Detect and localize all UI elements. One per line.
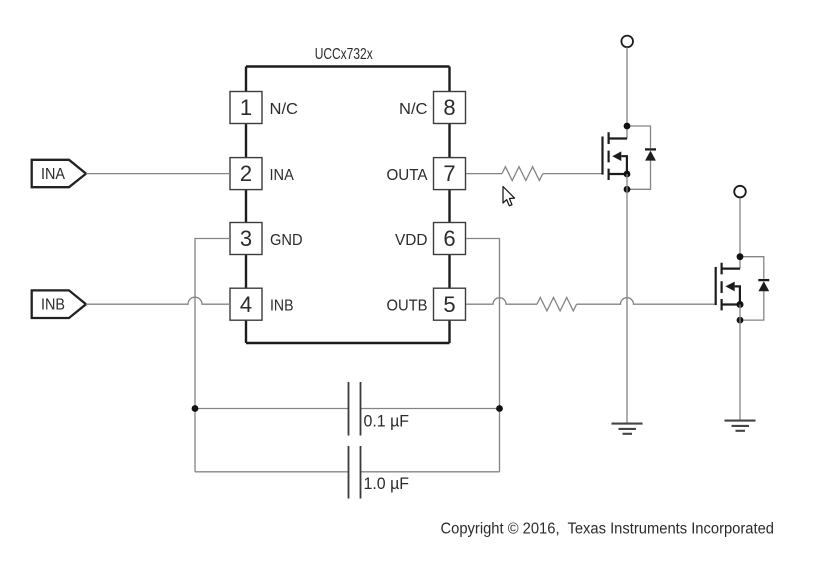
transistor Q1 (N-MOSFET) — [603, 132, 628, 180]
svg-text:1.0 µF: 1.0 µF — [364, 474, 410, 493]
wire cap C2 row left — [195, 471, 349, 473]
svg-text:8: 8 — [443, 95, 455, 120]
IC U1 UCCx732x outline — [246, 67, 450, 344]
junction dot Q2 drain/diode — [737, 253, 744, 260]
wire VDD pin 6 to bypass caps — [466, 239, 500, 472]
svg-text:5: 5 — [443, 292, 455, 317]
svg-text:N/C: N/C — [399, 101, 428, 118]
svg-text:7: 7 — [443, 161, 455, 186]
svg-text:4: 4 — [240, 292, 252, 317]
svg-text:GND: GND — [270, 232, 303, 249]
pin 4 (INB) — [230, 288, 294, 320]
wire INA to pin 2 — [86, 173, 230, 175]
svg-text:VDD: VDD — [395, 232, 428, 249]
wire cap C1 row left — [195, 408, 349, 410]
svg-text:0.1 µF: 0.1 µF — [364, 412, 410, 431]
pin 7 (OUTA) — [387, 158, 466, 190]
junction dot right cap bus — [496, 405, 503, 412]
body diode D2 — [758, 280, 769, 291]
junction dot Q1 drain/diode — [624, 123, 631, 130]
capacitor C1 0.1uF — [349, 382, 410, 436]
mouse cursor — [503, 187, 515, 206]
wire R1 to Q1 gate — [543, 173, 602, 175]
wire Q2 source to ground — [739, 305, 741, 421]
wire cap C1 row right — [361, 408, 500, 410]
svg-text:INA: INA — [41, 166, 66, 183]
terminal circle top (Q1 drain supply) — [621, 36, 633, 48]
pin 2 (INA) — [230, 158, 294, 190]
junction dot Q2 diode anode — [737, 317, 744, 324]
svg-text:INB: INB — [270, 298, 294, 315]
ground G2 — [725, 421, 756, 431]
resistor R1 — [502, 167, 543, 181]
svg-text:INB: INB — [41, 297, 65, 314]
pin 8 (N/C) — [399, 92, 466, 124]
svg-text:N/C: N/C — [270, 101, 299, 118]
svg-text:Copyright © 2016, Texas Instr: Copyright © 2016, Texas Instruments Inco… — [441, 521, 775, 538]
svg-text:2: 2 — [240, 161, 252, 186]
body diode D1 — [645, 149, 656, 160]
capacitor C2 1.0uF — [349, 446, 410, 499]
body diode D1 branch wires — [627, 126, 651, 189]
svg-text:OUTB: OUTB — [387, 298, 428, 315]
wire OUTA pin 7 to R1 — [466, 173, 502, 175]
junction dot left cap bus — [192, 405, 199, 412]
junction dot Q2 source — [737, 301, 744, 308]
pin 3 (GND) — [230, 223, 303, 255]
node INA input tag — [32, 160, 86, 187]
pin 5 (OUTB) — [387, 288, 466, 320]
junction dot Q1 diode anode — [624, 186, 631, 193]
wire OUTB pin 5 to R2 (hops over VDD wire) — [466, 298, 537, 305]
svg-text:6: 6 — [443, 226, 455, 251]
svg-text:UCCx732x: UCCx732x — [315, 46, 373, 63]
svg-text:OUTA: OUTA — [387, 167, 429, 184]
resistor R2 — [537, 298, 577, 311]
terminal circle top (Q2 drain supply) — [734, 186, 746, 198]
pin 1 (N/C) — [230, 92, 298, 124]
wire terminal to Q1 drain — [626, 47, 628, 138]
svg-text:INA: INA — [270, 167, 295, 184]
junction dot Q1 source — [624, 171, 631, 178]
wire GND pin 3 to bypass caps — [195, 239, 230, 472]
node INB input tag — [32, 290, 86, 318]
wire Q1 source to ground — [626, 174, 628, 424]
wire R2 to Q2 gate (hops over Q1 source wire) — [577, 298, 715, 305]
wire cap C2 row right — [361, 471, 500, 473]
pin 6 (VDD) — [395, 223, 466, 255]
transistor Q2 (N-MOSFET) — [716, 263, 740, 311]
ground G1 — [612, 424, 643, 434]
svg-text:3: 3 — [240, 226, 252, 251]
wire INB to pin 4 (hops over GND wire) — [86, 297, 230, 304]
body diode D2 branch wires — [740, 257, 764, 320]
wire terminal to Q2 drain — [739, 198, 741, 269]
svg-text:1: 1 — [240, 95, 252, 120]
